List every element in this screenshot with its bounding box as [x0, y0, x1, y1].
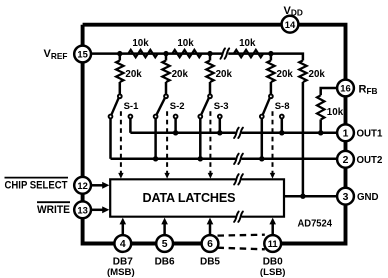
wire S-1 left contact to OUT2 bus (elbow, bus start): [109, 118, 112, 158]
dashed control line from data latches to switch S-8: [270, 111, 275, 178]
pin 2 OUT2: [337, 151, 354, 168]
svg-text:6: 6: [207, 239, 213, 250]
resistor 10k (ladder R1): [128, 38, 157, 57]
pin 13 WRITE: [74, 201, 91, 218]
resistor 20k (bit S-3 leg): [206, 54, 232, 95]
pin 16 RFB: [337, 80, 354, 97]
label WRITE with overline: [37, 202, 70, 216]
svg-text:DB7: DB7: [113, 256, 133, 267]
switch S-3: [198, 94, 228, 118]
svg-text:(MSB): (MSB): [107, 267, 135, 278]
svg-text:(LSB): (LSB): [260, 267, 286, 278]
svg-text:10k: 10k: [132, 38, 149, 49]
break mark on data latches bottom edge: [234, 212, 239, 222]
switch S-1: [109, 94, 140, 118]
svg-text:DB5: DB5: [200, 256, 220, 267]
wire S-2 left contact down to OUT2 bus: [154, 118, 157, 158]
pin 3 GND: [337, 188, 354, 205]
svg-text:4: 4: [120, 239, 126, 250]
svg-text:AD7524: AD7524: [298, 218, 333, 229]
wire data input DB7 from pin up to data latches with arrowhead: [120, 218, 127, 236]
node A (rail junction): [117, 51, 122, 56]
svg-text:WRITE: WRITE: [37, 204, 70, 216]
junction S-8 on OUT2: [259, 156, 264, 161]
break mark on OUT1 bus: [234, 128, 239, 138]
dashed omitted-pins line lower (between DB5 and DB0): [218, 248, 265, 250]
junction terminator on GND line: [300, 194, 305, 199]
svg-text:DB0: DB0: [263, 256, 283, 267]
wire VREF rail from pin 15 to break: [91, 52, 223, 55]
svg-text:VREF: VREF: [44, 48, 68, 61]
svg-text:16: 16: [340, 83, 350, 94]
wire OUT2 bus: [111, 158, 338, 161]
label DB0 (LSB): [260, 256, 286, 278]
wire OUT1 bus: [130, 132, 337, 135]
svg-text:RFB: RFB: [359, 84, 378, 97]
svg-text:S-3: S-3: [214, 101, 229, 112]
switch S-8: [260, 94, 290, 118]
svg-text:GND: GND: [357, 192, 379, 203]
pin 4 DB7: [114, 235, 131, 252]
svg-text:2: 2: [343, 155, 349, 166]
label CHIP SELECT with overline: [5, 178, 69, 192]
resistor 20k (ladder terminator): [299, 61, 325, 82]
switch S-2: [154, 94, 185, 118]
pin 15 VREF: [74, 46, 91, 63]
svg-text:20k: 20k: [172, 69, 189, 80]
wire S-3 right contact down to OUT1 bus: [219, 118, 222, 132]
svg-text:DATA LATCHES: DATA LATCHES: [143, 191, 236, 205]
break mark on VREF rail: [220, 48, 225, 58]
svg-text:OUT1: OUT1: [357, 128, 383, 139]
node D (rail junction): [268, 51, 273, 56]
junction S-3 on OUT1: [217, 130, 222, 135]
pin 11 DB0: [264, 235, 281, 252]
resistor 10k (ladder R2): [172, 38, 201, 57]
svg-text:VDD: VDD: [284, 5, 303, 18]
wire S-8 left contact down to OUT2 bus: [261, 118, 264, 158]
svg-text:15: 15: [77, 49, 87, 60]
dashed control line from data latches to switch S-2: [164, 111, 169, 178]
wire data input DB5 from pin up to data latches with arrowhead: [207, 218, 214, 236]
break mark on data latches top edge: [234, 174, 239, 184]
svg-text:S-1: S-1: [124, 101, 140, 112]
svg-text:12: 12: [77, 180, 87, 191]
wire data input DB6 from pin up to data latches with arrowhead: [161, 218, 168, 236]
break mark on OUT2 bus: [234, 154, 239, 164]
wire S-1 right contact to OUT1 bus (elbow, bus start): [129, 118, 132, 132]
chip outline border (AD7524 package boundary): [83, 25, 346, 244]
svg-text:11: 11: [268, 238, 278, 249]
junction S-8 on OUT1: [279, 130, 284, 135]
pin 12 CHIP SELECT: [74, 177, 91, 194]
node C (rail junction): [207, 51, 212, 56]
pin 5 DB6: [156, 235, 173, 252]
resistor 20k (bit S-2 leg): [162, 54, 188, 95]
junction S-2 on OUT2: [153, 156, 158, 161]
svg-text:CHIP SELECT: CHIP SELECT: [5, 180, 68, 192]
label DB7 (MSB): [107, 256, 135, 278]
resistor 10k (ladder R3): [234, 38, 263, 57]
svg-text:S-2: S-2: [170, 101, 185, 112]
svg-text:S-8: S-8: [275, 101, 290, 112]
data latches box: [110, 179, 284, 216]
svg-text:13: 13: [77, 204, 87, 215]
wire GND line from data latches to pin 3: [284, 195, 337, 198]
junction RFB resistor on OUT1: [318, 130, 323, 135]
wire S-3 left contact down to OUT2 bus: [199, 118, 202, 158]
resistor 10k (RFB feedback): [317, 88, 344, 133]
dashed control line from data latches to switch S-1: [118, 111, 123, 178]
svg-text:DB6: DB6: [155, 256, 175, 267]
wire data input DB0 from pin up to data latches with arrowhead: [269, 218, 276, 236]
svg-text:OUT2: OUT2: [357, 155, 383, 166]
wire write pin 13 to data latches with arrowhead: [91, 206, 109, 213]
svg-text:10k: 10k: [327, 107, 344, 118]
svg-text:20k: 20k: [277, 69, 294, 80]
svg-text:1: 1: [343, 128, 349, 139]
node B (rail junction): [163, 51, 168, 56]
wire chip select pin 12 to data latches with arrowhead: [91, 182, 109, 189]
resistor 20k (bit S-8 leg): [267, 54, 293, 95]
svg-text:14: 14: [285, 19, 296, 30]
pin 14 VDD: [282, 16, 299, 33]
svg-text:20k: 20k: [125, 69, 142, 80]
wire S-2 right contact down to OUT1 bus: [174, 118, 177, 132]
svg-text:20k: 20k: [309, 69, 326, 80]
svg-text:10k: 10k: [239, 38, 256, 49]
dashed control line from data latches to switch S-3: [208, 111, 213, 178]
junction S-3 on OUT2: [198, 156, 203, 161]
wire S-8 right contact down to OUT1 bus: [281, 118, 284, 132]
wire terminator leg down to GND line: [302, 82, 305, 196]
resistor 20k (bit S-1 leg): [116, 54, 142, 95]
svg-text:20k: 20k: [216, 69, 233, 80]
dashed omitted-pins line upper (between DB5 and DB0): [218, 234, 265, 237]
pin 6 DB5: [202, 235, 219, 252]
svg-text:10k: 10k: [177, 38, 194, 49]
wire VREF rail right of break to ladder terminator elbow: [228, 54, 303, 61]
svg-text:5: 5: [162, 239, 168, 250]
junction S-2 on OUT1: [173, 130, 178, 135]
pin 1 OUT1: [337, 124, 354, 141]
svg-text:3: 3: [343, 192, 349, 203]
